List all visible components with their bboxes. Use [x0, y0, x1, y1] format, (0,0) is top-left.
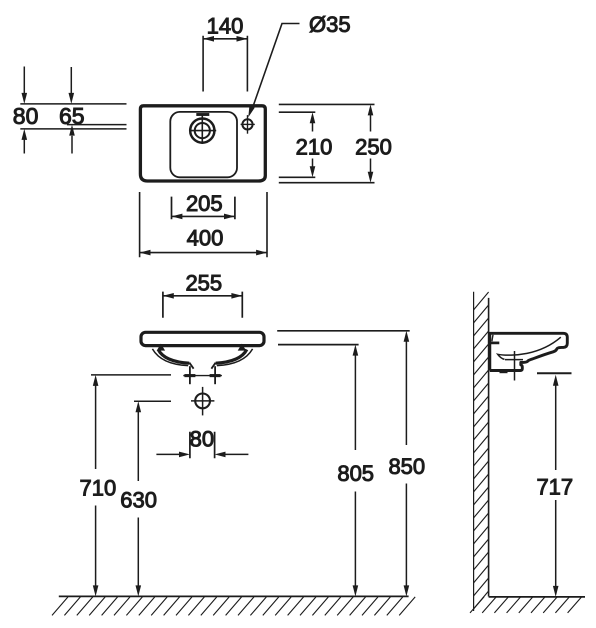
reference line 710 [91, 374, 171, 376]
bowl right cusp [238, 344, 246, 351]
faucet cross horizontal [189, 130, 216, 132]
dimension 140 extension lines [203, 36, 247, 92]
right reference line 210 top [279, 111, 316, 113]
left bolt thick dash [184, 374, 195, 377]
side fixing bracket dash [500, 371, 508, 374]
bowl left cusp [157, 344, 165, 351]
leader arrowhead [248, 106, 254, 117]
faucet symbol outer circle [190, 119, 214, 143]
right reference line 250 bottom [279, 182, 375, 184]
dimension 140 line [203, 38, 247, 40]
dimension 400 line [140, 252, 267, 254]
bowl underside thick arc left [158, 350, 189, 364]
svg-text:400: 400 [187, 226, 224, 251]
svg-text:140: 140 [207, 14, 244, 39]
ground line (front) [59, 595, 409, 597]
dimension 80 left line and arrow [156, 453, 179, 455]
arrow up to 80 line [23, 140, 25, 154]
svg-text:630: 630 [120, 487, 157, 512]
dimension 255 arrowheads [163, 293, 242, 299]
tap hole cross horizontal [241, 123, 255, 125]
drain cross vertical [202, 387, 204, 416]
bowl tail left [189, 363, 193, 369]
drain cross horizontal [191, 400, 214, 402]
dimension 80 right line and arrow [225, 453, 248, 455]
svg-text:210: 210 [296, 134, 333, 159]
dimension 255 line [163, 295, 242, 297]
side drain axis horizontal [505, 359, 523, 361]
svg-text:805: 805 [337, 461, 374, 486]
bowl underside thin arc right [217, 349, 253, 366]
svg-text:717: 717 [536, 475, 573, 500]
svg-text:65: 65 [59, 103, 85, 129]
right reference line 210 bottom [279, 176, 316, 178]
reference line 630 [134, 400, 171, 402]
dimension 805 vertical with arrows [354, 355, 356, 586]
svg-text:205: 205 [186, 191, 223, 216]
dimension 717 vertical with arrows [555, 385, 557, 586]
reference line 850 [277, 330, 410, 332]
faucet symbol inner circle [195, 123, 210, 138]
svg-text:710: 710 [80, 475, 117, 500]
dimension 710 vertical with arrows [95, 385, 97, 586]
wall face line [488, 298, 490, 597]
arrow down to top edge at x24 [23, 67, 25, 95]
bowl underside thin arc left [152, 349, 188, 366]
reference line 805 [278, 344, 359, 346]
right bolt vertical [214, 366, 216, 384]
faucet T-bar [196, 113, 209, 116]
leader line for hole diameter [252, 24, 300, 111]
dimension 250 up arrow [370, 115, 372, 132]
dimension 255 ticks [163, 292, 242, 318]
dimension 250 down arrow [370, 159, 372, 173]
svg-text:Ø35: Ø35 [309, 12, 351, 37]
wall rear edge [473, 292, 475, 611]
left reference line 65 (hole axis) [67, 124, 127, 126]
svg-text:850: 850 [388, 454, 425, 479]
arrow up to 65 line [71, 136, 73, 154]
dimension 140 arrowheads [203, 36, 247, 42]
arrow down to top edge at x71 [70, 67, 72, 94]
side profile inner bowl thin arc [498, 337, 561, 359]
right bolt thick dash [210, 374, 221, 377]
tap hole cross vertical [247, 115, 249, 134]
ground hatching (side) [470, 597, 582, 613]
basin inner outline (top view) [170, 112, 237, 177]
side overflow thick dash [490, 342, 500, 345]
ground hatching (front) [52, 597, 415, 616]
bolt axis line [183, 375, 222, 377]
dimension 205 line [172, 215, 235, 217]
svg-text:80: 80 [190, 426, 214, 451]
svg-text:255: 255 [185, 270, 222, 295]
dimension 850 vertical with arrows [405, 341, 407, 586]
left bolt vertical [189, 366, 191, 384]
dimension 80 ticks (front) [190, 432, 215, 458]
faucet cross vertical [201, 114, 203, 144]
dimension 400 extension lines [140, 192, 267, 257]
tap hole circle [242, 119, 252, 129]
ground line (side) [489, 596, 585, 598]
dimension 210 up arrow [312, 123, 314, 132]
dimension 210 down arrow [312, 159, 314, 168]
dimension 400 arrowheads [140, 250, 267, 256]
left reference line top edge [20, 103, 126, 105]
wall hatching [474, 292, 489, 609]
left reference line 80 (faucet axis) [20, 128, 126, 130]
sink front rim outline [141, 332, 264, 345]
bowl tail right [211, 363, 215, 369]
bowl underside thick arc right [216, 350, 247, 364]
side drain axis vertical [514, 351, 516, 381]
drain circle (front) [195, 394, 210, 409]
sink outer outline (top view) [140, 106, 265, 181]
svg-text:80: 80 [13, 103, 39, 129]
side profile of basin (thick outline) [488, 333, 567, 370]
dimension 630 vertical with arrows [137, 412, 139, 586]
dimension 205 ticks [172, 197, 235, 220]
svg-text:250: 250 [355, 134, 392, 159]
dimension 205 arrowheads [172, 214, 235, 220]
right reference line 250 top [279, 103, 375, 105]
reference dash for 717 [537, 372, 572, 374]
side overflow tick [492, 335, 493, 342]
